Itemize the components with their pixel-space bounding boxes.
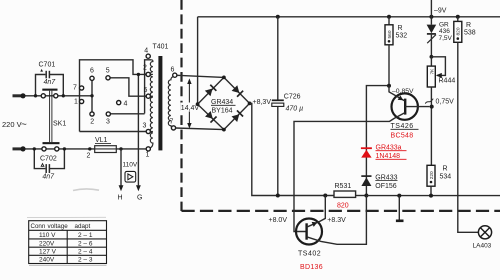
svg-text:BY164: BY164 — [212, 108, 233, 115]
svg-text:2: 2 — [143, 65, 147, 72]
svg-text:6: 6 — [171, 67, 175, 74]
svg-text:6: 6 — [90, 68, 94, 75]
svg-text:C726: C726 — [284, 94, 301, 101]
svg-text:1: 1 — [146, 152, 150, 159]
svg-text:C702: C702 — [40, 156, 57, 163]
svg-text:R531: R531 — [335, 183, 352, 190]
svg-text:R: R — [466, 22, 471, 29]
svg-text:LA403: LA403 — [473, 243, 492, 250]
svg-text:2 – 4: 2 – 4 — [78, 249, 93, 256]
svg-text:2 – 1: 2 – 1 — [78, 232, 93, 239]
svg-text:127 V: 127 V — [39, 249, 57, 256]
svg-text:5: 5 — [144, 87, 148, 94]
svg-text:BD136: BD136 — [300, 264, 323, 271]
svg-text:R444: R444 — [439, 78, 456, 85]
svg-text:7: 7 — [73, 85, 77, 92]
svg-text:820: 820 — [456, 27, 462, 35]
svg-text:3: 3 — [143, 123, 147, 130]
svg-text:OF156: OF156 — [375, 183, 397, 190]
svg-text:2 – 6: 2 – 6 — [78, 240, 93, 247]
svg-text:534: 534 — [440, 174, 452, 181]
svg-text:1: 1 — [74, 99, 78, 106]
svg-text:T401: T401 — [153, 44, 169, 51]
svg-text:240V: 240V — [39, 257, 55, 264]
svg-text:1N4148: 1N4148 — [376, 153, 401, 160]
svg-text:R: R — [443, 166, 448, 173]
svg-text:+8.0V: +8.0V — [269, 217, 288, 224]
svg-text:G: G — [137, 195, 142, 202]
svg-text:4n7: 4n7 — [44, 79, 57, 86]
svg-text:538: 538 — [464, 30, 476, 37]
svg-text:Conn: Conn — [31, 223, 46, 230]
svg-text:436: 436 — [439, 28, 450, 35]
svg-text:R: R — [398, 25, 403, 32]
svg-text:C701: C701 — [39, 62, 56, 69]
svg-text:220 V: 220 V — [2, 120, 22, 129]
svg-text:2: 2 — [87, 153, 91, 160]
svg-text:532: 532 — [396, 33, 408, 40]
svg-text:3: 3 — [106, 119, 110, 126]
svg-text:7: 7 — [170, 119, 174, 126]
svg-text:BC548: BC548 — [391, 132, 414, 139]
svg-text:4: 4 — [124, 101, 128, 108]
svg-text:560: 560 — [387, 30, 393, 38]
svg-text:4n7: 4n7 — [42, 174, 55, 181]
svg-text:H: H — [118, 195, 123, 202]
svg-text:voltage: voltage — [48, 223, 69, 230]
svg-text:470 µ: 470 µ — [286, 106, 304, 113]
svg-text:SK1: SK1 — [53, 121, 66, 128]
svg-text:220V: 220V — [39, 240, 55, 247]
svg-text:TS402: TS402 — [298, 250, 321, 257]
svg-text:5: 5 — [106, 68, 110, 75]
svg-text:TS426: TS426 — [391, 123, 414, 130]
svg-text:14,4V: 14,4V — [181, 105, 200, 112]
svg-text:+8,3V: +8,3V — [253, 99, 272, 106]
svg-text:4: 4 — [144, 48, 148, 55]
svg-text:220: 220 — [429, 171, 435, 179]
svg-text:7,5V: 7,5V — [439, 35, 453, 42]
svg-text:adapt: adapt — [75, 223, 91, 230]
svg-text:0,75V: 0,75V — [436, 98, 455, 105]
svg-text:+8.3V: +8.3V — [327, 217, 346, 224]
svg-text:2 – 3: 2 – 3 — [78, 257, 93, 264]
svg-text:–9V: –9V — [434, 8, 447, 15]
svg-text:VL1: VL1 — [95, 137, 108, 144]
svg-text:7K: 7K — [430, 68, 436, 75]
svg-text:110V: 110V — [123, 162, 138, 169]
svg-text:2: 2 — [90, 119, 94, 126]
svg-text:820: 820 — [337, 203, 349, 210]
svg-text:~: ~ — [21, 120, 27, 131]
svg-text:110 V: 110 V — [39, 232, 56, 239]
